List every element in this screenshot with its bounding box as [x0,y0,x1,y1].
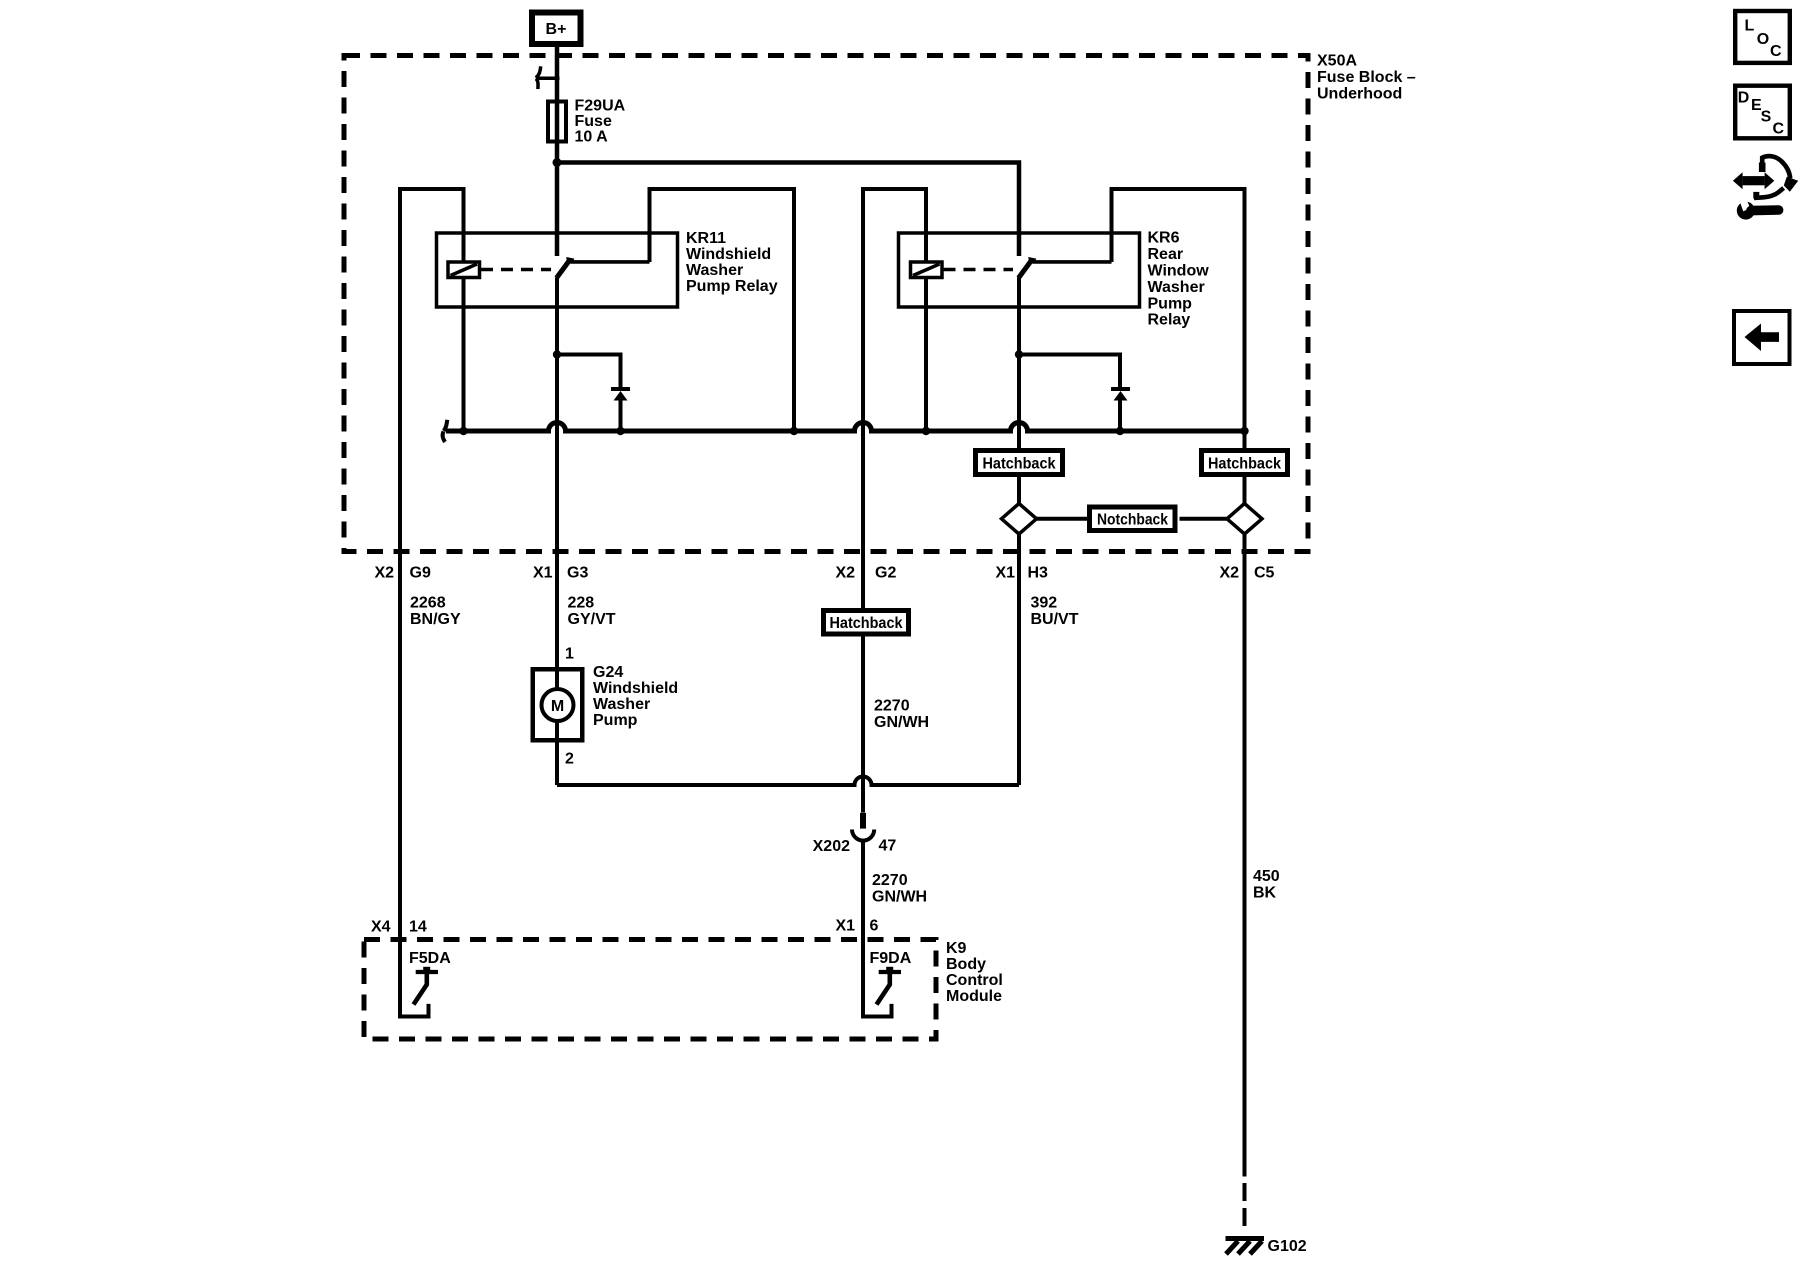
motor M symbol [542,689,574,721]
svg-text:Fuse: Fuse [575,113,612,130]
pump G24 pin 2 [565,751,574,768]
svg-text:2270: 2270 [872,872,908,889]
svg-text:X2: X2 [1220,565,1240,582]
BCM terminal F9DA symbol [877,967,902,1005]
node diamond H3 [1002,504,1037,535]
diode KR6 suppression [1019,355,1130,432]
svg-text:Notchback: Notchback [1097,512,1168,529]
svg-text:X1: X1 [836,918,856,935]
svg-text:X4: X4 [371,919,391,936]
svg-text:G2: G2 [875,565,896,582]
node bus right corner to C5 [1240,427,1248,435]
svg-text:Relay: Relay [1148,312,1191,329]
pump G24 pin 1 [565,646,574,663]
B+ battery terminal box [532,13,581,45]
relay KR11 contact line [571,260,650,264]
wire KR11 contact pin path to ground bus [650,189,795,431]
svg-text:Fuse Block –: Fuse Block – [1317,69,1416,86]
svg-text:KR11: KR11 [686,230,726,247]
node bus KR6 diode [1116,427,1124,435]
relay KR6 box [899,233,1140,307]
svg-text:2270: 2270 [874,698,910,715]
wire KR11 switch output down (G3) [555,278,559,786]
BCM terminal F9DA label [870,950,912,967]
connector label X202 47 [813,838,897,856]
wire B+ feed down through fuse to KR11 switch [555,44,560,256]
relay KR11 label [686,230,778,295]
svg-text:Pump: Pump [593,712,638,729]
svg-text:BN/GY: BN/GY [410,611,461,628]
icon LOC button [1735,11,1790,63]
svg-text:L: L [1745,18,1755,35]
connector label X1 G3 [533,565,588,582]
connector label X1 H3 [996,565,1049,582]
svg-text:Washer: Washer [1148,279,1205,296]
svg-text:Hatchback: Hatchback [1208,456,1281,473]
svg-text:KR6: KR6 [1148,230,1180,247]
K9 Body Control Module label [946,940,1003,1005]
connector label X2 G9 [375,565,431,582]
svg-text:H3: H3 [1028,565,1049,582]
svg-text:G102: G102 [1268,1238,1307,1255]
svg-text:Module: Module [946,988,1002,1005]
relay KR11 box [437,233,678,307]
svg-text:BK: BK [1253,885,1277,902]
wire label 228 GY/VT [568,595,616,629]
wire label 2268 BN/GY [410,595,461,629]
relay KR6 coil [911,262,943,278]
svg-text:X2: X2 [836,565,856,582]
connector X202 male blade [860,813,866,829]
relay KR11 mechanical link [481,268,551,272]
Hatchback box on H3 wire [976,451,1063,475]
svg-text:Washer: Washer [593,696,650,713]
svg-text:6: 6 [870,918,879,935]
svg-text:Washer: Washer [686,262,743,279]
svg-text:Pump: Pump [1148,295,1193,312]
svg-text:X202: X202 [813,838,850,855]
connector label X1 6 [836,918,879,935]
svg-text:B+: B+ [546,21,567,38]
svg-text:D: D [1738,89,1750,106]
wire power feed to KR6 switch [557,163,1019,257]
BCM terminal F5DA label [409,950,451,967]
svg-text:F9DA: F9DA [870,950,912,967]
ground G102 symbol [1226,1239,1265,1255]
svg-text:C5: C5 [1254,565,1275,582]
svg-text:228: 228 [568,595,595,612]
svg-text:2: 2 [565,751,574,768]
svg-text:392: 392 [1031,595,1058,612]
svg-text:G3: G3 [567,565,588,582]
fuse F29UA body [548,102,566,142]
svg-text:K9: K9 [946,940,967,957]
relay KR6 switch arm [1019,257,1037,278]
svg-text:G9: G9 [410,565,431,582]
wire 2270 to BCM pin 6 [863,840,892,1016]
svg-text:2268: 2268 [410,595,446,612]
svg-text:O: O [1757,31,1769,48]
pump G24 box [533,669,583,740]
node bus KR11 diode [616,427,624,435]
pump G24 label [593,664,678,729]
svg-text:M: M [551,698,564,715]
BCM K9 dashed box [364,940,936,1040]
wire label 392 BU/VT [1031,595,1079,629]
svg-text:GN/WH: GN/WH [872,889,927,906]
svg-text:GY/VT: GY/VT [568,611,616,628]
node bus KR11 coil [459,427,467,435]
BCM terminal F5DA symbol [414,967,439,1005]
svg-text:X2: X2 [375,565,395,582]
icon harness routing with wrench [1733,156,1798,219]
svg-text:Windshield: Windshield [593,680,678,697]
svg-text:Window: Window [1148,263,1210,280]
wire pump return horizontal [557,777,1019,786]
svg-text:Pump Relay: Pump Relay [686,278,778,295]
connector X202 female cup [852,830,874,841]
wire KR6 coil top to G2 upper [863,189,926,813]
connector squiggle at fuse block entry [536,66,560,89]
svg-text:X1: X1 [996,565,1016,582]
wire Notchback right to diamond [1180,517,1228,521]
ground bus inside fuse block [446,423,1245,432]
icon DESC button [1735,86,1790,139]
fuse block X50A dashed box [344,56,1308,552]
wire label 2270 GN/WH upper [874,698,929,732]
X50A Fuse Block Underhood label [1317,53,1416,103]
node diamond C5 [1227,504,1262,535]
relay KR6 contact line [1033,260,1112,264]
svg-text:Control: Control [946,972,1003,989]
wire KR11 coil top to G9 [400,189,464,1017]
diode KR11 suppression [557,355,630,432]
svg-text:X1: X1 [533,565,553,582]
wire KR11 coil bottom to ground bus [462,278,466,432]
connector label X4 14 [371,919,427,936]
ground bus left end curl [443,420,448,442]
Notchback box [1090,507,1176,531]
svg-text:BU/VT: BU/VT [1031,611,1079,628]
svg-text:C: C [1773,121,1785,138]
svg-text:C: C [1770,43,1782,60]
wire KR6 contact pin path to ground bus corner [1112,189,1245,1177]
svg-text:47: 47 [879,838,897,855]
svg-text:G24: G24 [593,664,623,681]
node bus KR6 coil [922,427,930,435]
wire diamond to Notchback left [1037,517,1090,521]
wire KR6 coil bottom to ground bus [924,278,928,432]
svg-text:S: S [1761,108,1772,125]
Hatchback box on C5 wire [1202,451,1288,475]
node bus KR11 contact path [790,427,798,435]
svg-text:Windshield: Windshield [686,246,771,263]
svg-text:X50A: X50A [1317,53,1357,70]
node KR6 diode branch junction [1015,350,1023,358]
node KR11 diode branch junction [553,350,561,358]
svg-text:F5DA: F5DA [409,950,451,967]
Hatchback box on G2 wire [824,611,909,635]
svg-text:14: 14 [409,919,427,936]
svg-text:1: 1 [565,646,574,663]
icon back arrow button [1734,311,1790,364]
svg-text:10 A: 10 A [575,129,609,146]
wire KR6 switch output down (H3) [1017,278,1021,786]
svg-text:Rear: Rear [1148,246,1184,263]
connector label X2 C5 [1220,565,1275,582]
connector label X2 G2 [836,565,897,582]
wire 450 BK dashed end [1243,1183,1247,1226]
relay KR11 coil [448,262,480,278]
ground G102 label [1268,1238,1307,1255]
wire label 450 BK [1253,868,1280,902]
svg-text:Body: Body [946,956,986,973]
relay KR6 mechanical link [944,268,1014,272]
svg-text:GN/WH: GN/WH [874,714,929,731]
relay KR11 switch arm [557,257,575,278]
svg-text:Hatchback: Hatchback [830,615,903,632]
relay KR6 label [1148,230,1210,329]
node power junction at fuse output [553,158,562,167]
svg-text:Underhood: Underhood [1317,86,1402,103]
svg-text:F29UA: F29UA [575,98,626,115]
svg-text:Hatchback: Hatchback [983,456,1056,473]
fuse F29UA label [575,98,626,146]
svg-text:450: 450 [1253,868,1280,885]
wire label 2270 GN/WH lower [872,872,927,906]
